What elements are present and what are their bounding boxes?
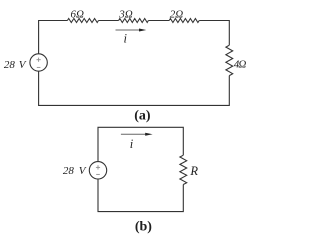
resistor 3ohm — [119, 19, 149, 23]
resistor R — [180, 155, 187, 184]
svg-text:3Ω: 3Ω — [118, 8, 133, 20]
svg-text:i: i — [130, 137, 134, 151]
svg-text:6Ω: 6Ω — [70, 8, 84, 20]
svg-text:V: V — [79, 165, 87, 177]
wire: circuit (a) top-right segment — [199, 21, 229, 46]
svg-text:28: 28 — [63, 165, 75, 177]
svg-text:V: V — [19, 59, 27, 71]
wire: circuit (a) top-left segment — [39, 21, 68, 54]
svg-text:(b): (b) — [135, 219, 152, 234]
voltage source V 28V circuit (b) — [89, 162, 106, 179]
wire: circuit (b) bottom segment — [98, 179, 183, 212]
svg-text:28: 28 — [4, 59, 16, 71]
current arrow i circuit (b) — [121, 133, 153, 136]
wire: circuit (b) top segment — [98, 127, 183, 161]
svg-text:4Ω: 4Ω — [234, 58, 247, 70]
svg-text:R: R — [189, 164, 198, 178]
wire: between 6ohm and 3ohm — [99, 20, 119, 22]
voltage source (b) plus/minus marks — [96, 165, 100, 174]
resistor 4ohm — [226, 45, 233, 75]
voltage source (a) plus/minus marks — [37, 58, 41, 68]
current arrow i circuit (a) — [116, 29, 147, 32]
svg-text:(a): (a) — [134, 108, 151, 123]
svg-text:2Ω: 2Ω — [170, 8, 184, 20]
wire: between 3ohm and 2ohm — [148, 20, 169, 22]
resistor 2ohm — [169, 19, 199, 23]
voltage source V 28V circuit (a) — [30, 54, 47, 71]
resistor 6ohm — [67, 19, 98, 23]
svg-text:i: i — [124, 32, 128, 46]
wire: circuit (a) right-bottom segment — [39, 71, 230, 105]
